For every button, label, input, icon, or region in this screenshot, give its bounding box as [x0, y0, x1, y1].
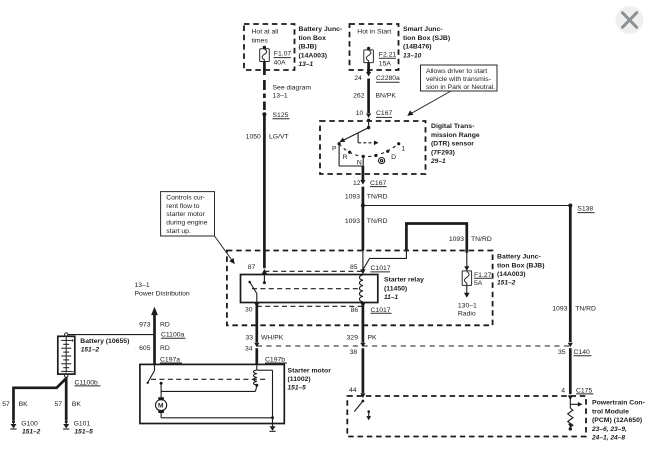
label Battery Junction Box (BJB) top [299, 26, 343, 68]
svg-text:38: 38 [350, 349, 358, 356]
svg-text:RD: RD [160, 345, 170, 352]
PCM internal: pin 4 pull-up resistor [568, 399, 583, 431]
svg-text:Battery (10655): Battery (10655) [80, 338, 129, 345]
svg-text:262: 262 [353, 93, 365, 100]
svg-text:87: 87 [248, 264, 256, 271]
svg-text:Battery Junc-: Battery Junc- [299, 26, 343, 33]
svg-text:Starter relay: Starter relay [384, 277, 424, 284]
svg-text:13–1: 13–1 [299, 61, 314, 68]
svg-text:10: 10 [356, 110, 364, 117]
svg-text:(PCM) (12A650): (PCM) (12A650) [592, 417, 642, 424]
svg-text:4: 4 [561, 388, 565, 395]
wire F1.07 to S125 (dashed, see diagram 13-1) [264, 62, 311, 111]
svg-text:973: 973 [139, 322, 151, 329]
svg-text:1: 1 [402, 146, 406, 153]
svg-text:85: 85 [350, 264, 358, 271]
motor internal: solenoid switch arm [147, 364, 155, 384]
svg-text:329: 329 [347, 335, 359, 342]
relay internal: coil between 85 and 86 [359, 275, 362, 302]
svg-text:(DTR) sensor: (DTR) sensor [431, 141, 474, 148]
svg-text:tion Box (SJB): tion Box (SJB) [403, 35, 450, 42]
svg-text:G101: G101 [74, 420, 91, 427]
svg-text:Power Distribution: Power Distribution [135, 291, 190, 298]
svg-text:30: 30 [245, 307, 253, 314]
wire 1093 TN/RD from C167 to S138 [345, 187, 388, 251]
dashed link between pin arrows above relay [264, 270, 363, 272]
svg-text:151–5: 151–5 [75, 428, 94, 435]
wire to Radio 130-1 [458, 285, 477, 317]
svg-text:G100: G100 [21, 420, 38, 427]
DTR internal: wire P and N to output [339, 144, 363, 174]
label Smart Junction Box (SJB) [403, 26, 450, 59]
motor internal: return wire to ground [161, 413, 274, 419]
close button X [616, 6, 644, 34]
starter motor box (11002) [140, 364, 331, 423]
svg-text:C1100b: C1100b [75, 379, 99, 386]
svg-text:(7F293): (7F293) [431, 149, 455, 156]
svg-text:24: 24 [354, 75, 362, 82]
svg-text:Hot at all: Hot at all [252, 28, 279, 35]
svg-text:Allows driver to start: Allows driver to start [426, 68, 487, 75]
fuse F2.21 15A [364, 47, 397, 68]
svg-text:PK: PK [368, 335, 378, 342]
svg-text:34: 34 [245, 345, 253, 352]
svg-text:1093: 1093 [345, 218, 360, 225]
svg-text:See diagram: See diagram [273, 84, 312, 91]
svg-text:F2.21: F2.21 [379, 52, 397, 59]
svg-text:57: 57 [2, 401, 10, 408]
svg-text:1050: 1050 [246, 134, 261, 141]
svg-text:1093: 1093 [345, 193, 360, 200]
svg-text:35: 35 [558, 349, 566, 356]
svg-text:(BJB): (BJB) [299, 44, 317, 51]
svg-text:Controls cur-: Controls cur- [166, 195, 205, 202]
connector C197b [265, 357, 287, 364]
svg-text:–: – [71, 369, 75, 376]
svg-text:times: times [252, 38, 269, 45]
note box "Allows driver..." [407, 65, 497, 116]
svg-text:M: M [158, 403, 164, 410]
power distribution arrow 13-1 [135, 282, 190, 364]
thin link from pi branch to relay pin 85 node [363, 252, 407, 270]
svg-text:C1017: C1017 [371, 265, 391, 272]
connector C1100b [65, 374, 101, 386]
wire 973 RD / C1100a / 605 RD / C197a [139, 322, 185, 364]
svg-text:15A: 15A [379, 60, 392, 67]
svg-text:LG/VT: LG/VT [269, 134, 289, 141]
relay pin 85 arrow, C1017 [350, 251, 391, 275]
svg-text:24–1, 24–8: 24–1, 24–8 [591, 435, 625, 442]
relay internal: switch arm [248, 281, 257, 294]
fuse F1.07 40A [260, 46, 292, 67]
svg-text:(14A003): (14A003) [299, 52, 328, 59]
wire down to radio fuse F1.27 [464, 253, 469, 271]
svg-text:S138: S138 [577, 206, 593, 213]
svg-text:(14A003): (14A003) [497, 271, 526, 278]
connector C167 pin 10 into DTR [356, 110, 393, 121]
svg-text:1093: 1093 [449, 236, 464, 243]
fuse F1.27 5A [462, 271, 491, 287]
svg-text:R: R [343, 154, 348, 161]
relay pin 30 arrow and wire out [245, 294, 260, 343]
svg-text:1093: 1093 [552, 306, 567, 313]
svg-text:tion Box: tion Box [299, 35, 327, 42]
svg-text:TN/RD: TN/RD [367, 218, 388, 225]
svg-text:S125: S125 [273, 112, 289, 119]
wire F2.21 down / connector C2280a pin 24 [354, 63, 400, 83]
svg-text:starter motor: starter motor [166, 211, 205, 218]
svg-text:BN/PK: BN/PK [376, 93, 397, 100]
relay internal: fixed contact under pin 87 [263, 275, 266, 285]
wire 1093 TN/RD right side from S138 to PCM [552, 206, 596, 401]
motor internal: hold-in branch to ground line [257, 370, 273, 418]
svg-text:Starter motor: Starter motor [288, 367, 332, 374]
svg-text:RD: RD [160, 322, 170, 329]
svg-text:151–5: 151–5 [288, 385, 307, 392]
svg-text:start up.: start up. [166, 228, 191, 235]
starter relay rectangle (11450) [241, 275, 425, 303]
note box "Controls current flow..." [161, 192, 235, 265]
svg-text:151–2: 151–2 [22, 428, 41, 435]
svg-text:WH/PK: WH/PK [261, 335, 284, 342]
svg-text:Digital Trans-: Digital Trans- [431, 123, 474, 130]
svg-text:BK: BK [19, 401, 29, 408]
svg-text:13–1: 13–1 [273, 92, 288, 99]
svg-text:during engine: during engine [166, 220, 207, 227]
svg-text:C167: C167 [376, 110, 392, 117]
wire 329 PK from pin 86 [347, 335, 377, 399]
relay pin 86 arrow, C1017, wire out [351, 303, 392, 343]
battery (10655) [58, 333, 130, 374]
svg-text:P: P [332, 146, 337, 153]
svg-text:(14B476): (14B476) [403, 44, 432, 51]
svg-text:Battery Junc-: Battery Junc- [497, 254, 541, 261]
motor internal: dashed mechanical link [151, 378, 266, 380]
DTR internal: input stub and selector arm [339, 121, 370, 142]
svg-text:(11450): (11450) [384, 285, 407, 292]
ground wires 57 BK [2, 377, 81, 420]
svg-text:TN/RD: TN/RD [367, 193, 388, 200]
fuse box BJB "Hot at all times" [244, 24, 295, 70]
node S125 [262, 112, 289, 119]
svg-text:44: 44 [349, 387, 357, 394]
svg-text:605: 605 [139, 345, 151, 352]
svg-text:TN/RD: TN/RD [471, 236, 492, 243]
DTR sensor box (7F293) [320, 121, 480, 174]
svg-text:33: 33 [245, 335, 253, 342]
svg-text:mission Range: mission Range [431, 132, 480, 139]
DTR internal: motion-direction dashed arrow [358, 133, 379, 145]
svg-text:57: 57 [54, 401, 62, 408]
svg-text:23–6, 23–9,: 23–6, 23–9, [591, 426, 627, 433]
battery plus tie line [68, 334, 155, 336]
wire 262 BN/PK [353, 79, 396, 114]
motor M symbol [156, 397, 167, 413]
svg-text:12: 12 [353, 180, 361, 187]
svg-text:Smart Junc-: Smart Junc- [403, 26, 443, 33]
svg-text:(11002): (11002) [288, 376, 311, 383]
motor case ground [269, 418, 275, 432]
wire 1050 LG/VT from S125 down to relay pin 87 [246, 114, 289, 268]
dashed box Battery Junction Box around relay [227, 251, 545, 326]
ground G101 [63, 420, 93, 435]
connector C167 pin 12 below DTR [353, 174, 387, 187]
svg-text:vehicle with transmis-: vehicle with transmis- [426, 76, 491, 83]
svg-text:BK: BK [72, 401, 82, 408]
svg-text:Powertrain Con-: Powertrain Con- [592, 400, 645, 407]
svg-text:13–10: 13–10 [403, 52, 422, 59]
svg-text:F1.07: F1.07 [274, 50, 292, 57]
relay pin 87 arrow and label [248, 264, 267, 274]
connector line C140 (dashed) [257, 345, 572, 347]
svg-text:TN/RD: TN/RD [575, 306, 596, 313]
svg-text:151–2: 151–2 [81, 346, 100, 353]
fuse box SJB "Hot in Start" [350, 24, 399, 70]
PCM dashed box (12A650) [347, 396, 645, 442]
DTR overdrive-off symbol (circled O) [379, 158, 385, 164]
svg-text:D: D [391, 154, 396, 161]
svg-text:trol Module: trol Module [592, 408, 629, 415]
battery polarity marks [71, 339, 75, 376]
svg-text:tion Box (BJB): tion Box (BJB) [497, 262, 545, 269]
svg-text:C1100a: C1100a [161, 332, 185, 339]
svg-text:5A: 5A [474, 280, 483, 287]
DTR contacts P R N O D 1 on dashed arc [332, 142, 406, 167]
svg-text:Hot in Start: Hot in Start [357, 28, 391, 35]
battery cells [61, 337, 71, 373]
relay internal: mechanical dashed link [252, 288, 360, 290]
svg-text:40A: 40A [274, 60, 287, 67]
wire branch 1093 TN/RD to radio fuse (pi shape) [406, 224, 491, 253]
node S138 and horizontal tie wire [361, 204, 595, 213]
svg-text:86: 86 [351, 307, 359, 314]
svg-text:29–1: 29–1 [430, 158, 446, 165]
dashed link between pin arrows below relay [257, 305, 363, 307]
svg-text:sion in Park or Neutral.: sion in Park or Neutral. [426, 84, 495, 91]
motor internal: solenoid coil C197b side [254, 364, 259, 386]
PCM internal: pin 44 switch to logic [354, 400, 371, 421]
svg-text:13–1: 13–1 [135, 282, 150, 289]
svg-text:151–2: 151–2 [497, 280, 516, 287]
svg-text:C140: C140 [574, 349, 590, 356]
ground G100 [10, 420, 40, 435]
svg-text:+: + [71, 339, 75, 345]
svg-text:Radio: Radio [458, 310, 476, 317]
svg-text:130–1: 130–1 [458, 303, 477, 310]
svg-text:rent flow to: rent flow to [166, 203, 199, 210]
svg-text:11–1: 11–1 [384, 294, 399, 301]
svg-text:C2280a: C2280a [376, 75, 400, 82]
wire 33 WH/PK from pin 30 [245, 335, 284, 365]
motor internal: fixed contact and feed to motor [160, 382, 257, 398]
